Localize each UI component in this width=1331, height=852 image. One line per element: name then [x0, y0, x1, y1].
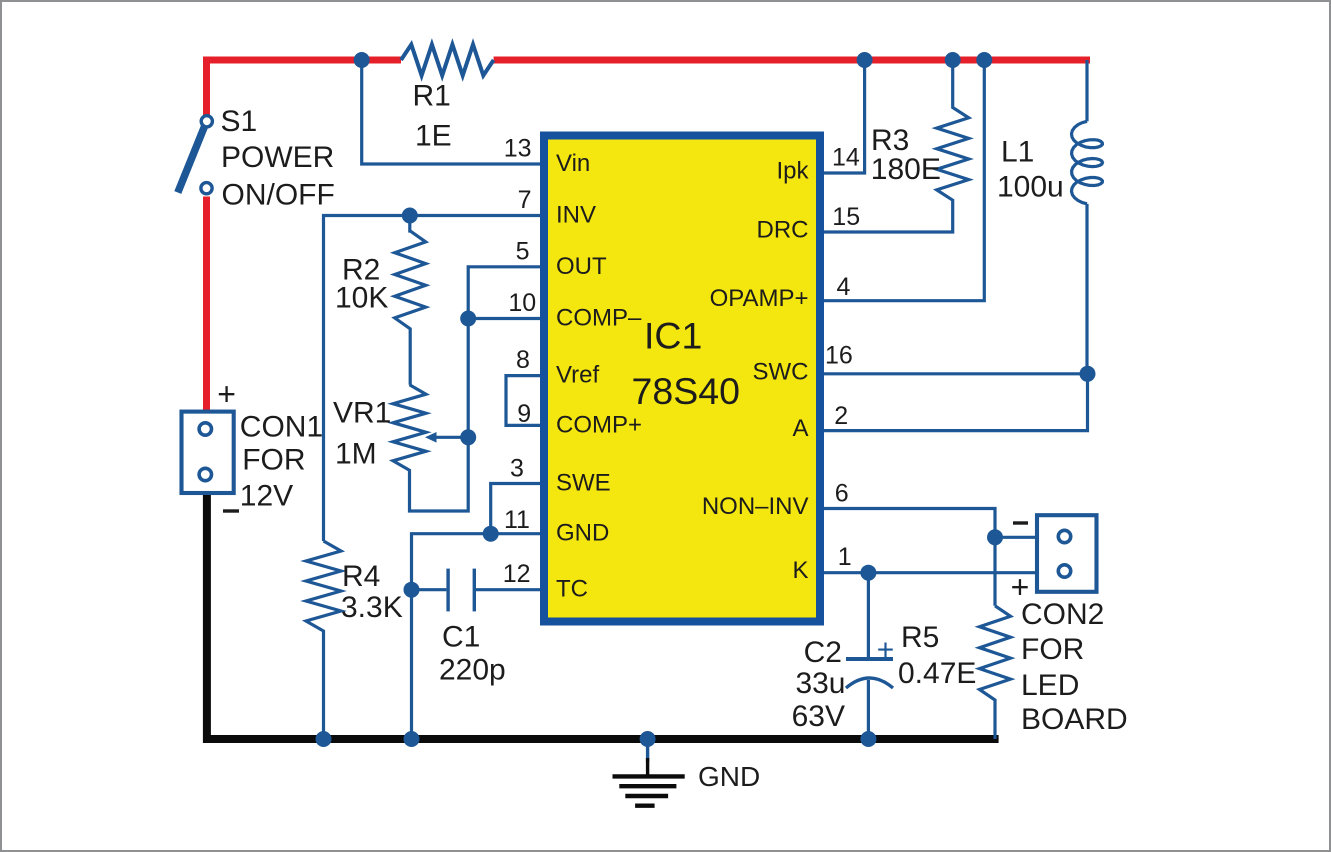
svg-text:FOR: FOR: [242, 444, 305, 477]
wire: pin4 OPAMP+: [824, 60, 984, 301]
svg-text:DRC: DRC: [757, 217, 809, 244]
svg-text:+: +: [217, 376, 236, 412]
svg-text:13: 13: [504, 135, 532, 163]
svg-text:33u: 33u: [795, 667, 845, 700]
svg-text:63V: 63V: [792, 700, 845, 733]
junction node (SWE / GND): [483, 526, 499, 542]
svg-text:OUT: OUT: [556, 253, 607, 280]
svg-text:R4: R4: [342, 560, 380, 593]
svg-text:SWC: SWC: [753, 358, 809, 385]
wire: pin14 Ipk: [824, 60, 865, 173]
svg-text:6: 6: [835, 480, 849, 508]
junction node (C2 / ground bus): [860, 731, 876, 747]
resistor R3: [824, 60, 969, 232]
svg-text:CON2: CON2: [1021, 598, 1104, 631]
wire: CON2 minus stub: [995, 536, 1037, 539]
svg-text:3: 3: [510, 455, 524, 483]
svg-text:8: 8: [516, 346, 530, 374]
svg-text:10: 10: [508, 289, 536, 317]
svg-text:180E: 180E: [871, 153, 941, 186]
wire: ground bus (black): [207, 495, 999, 739]
svg-text:4: 4: [837, 273, 851, 301]
svg-text:BOARD: BOARD: [1021, 703, 1128, 736]
svg-text:1E: 1E: [415, 120, 452, 153]
svg-text:5: 5: [516, 237, 530, 265]
svg-text:FOR: FOR: [1021, 633, 1084, 666]
svg-text:15: 15: [832, 203, 860, 231]
wire: pin1 K to CON2 +: [824, 571, 1037, 574]
wire: pin6 NON-INV net: [824, 509, 995, 606]
svg-text:+: +: [877, 634, 895, 667]
CON2 minus sign: [1013, 521, 1028, 524]
svg-text:NON–INV: NON–INV: [702, 493, 809, 520]
wire: pin16 SWC: [824, 372, 1088, 375]
svg-text:INV: INV: [556, 202, 596, 229]
junction node (red bus / R3): [945, 52, 961, 68]
svg-text:1M: 1M: [335, 438, 377, 471]
capacitor C1: [412, 588, 447, 591]
resistor R4: [306, 541, 341, 739]
svg-text:GND: GND: [698, 761, 760, 792]
junction node (ground bus / ground symbol): [640, 731, 656, 747]
svg-text:10K: 10K: [335, 281, 388, 314]
potentiometer VR1: [393, 385, 468, 511]
svg-text:IC1: IC1: [644, 315, 702, 357]
svg-text:C2: C2: [804, 636, 842, 669]
junction node (OUT / COMP-): [460, 311, 476, 327]
svg-text:LED: LED: [1021, 669, 1079, 702]
svg-text:L1: L1: [1001, 136, 1034, 169]
svg-text:POWER: POWER: [221, 141, 334, 174]
resistor R5: [980, 606, 1011, 739]
IC U1 78S40 body: [544, 136, 820, 622]
junction node (red bus / Ipk): [857, 52, 873, 68]
svg-text:Vin: Vin: [556, 150, 590, 177]
svg-text:2: 2: [834, 402, 848, 430]
svg-text:COMP+: COMP+: [556, 411, 642, 438]
svg-text:R1: R1: [413, 80, 451, 113]
junction node (K / C2): [860, 565, 876, 581]
wire: +12V red bus (R1 to L1): [494, 57, 1090, 64]
svg-text:3.3K: 3.3K: [341, 591, 403, 624]
svg-text:R3: R3: [871, 124, 909, 157]
svg-text:OPAMP+: OPAMP+: [710, 285, 809, 312]
svg-text:TC: TC: [556, 576, 588, 603]
svg-text:C1: C1: [442, 621, 480, 654]
junction node (VR1 wiper): [460, 429, 476, 445]
svg-text:ON/OFF: ON/OFF: [222, 178, 335, 211]
svg-text:S1: S1: [221, 105, 258, 138]
svg-text:1: 1: [838, 543, 852, 571]
svg-text:12: 12: [503, 560, 531, 588]
wire: pin3 SWE stub: [491, 484, 540, 534]
junction node (GND net / C1): [404, 582, 420, 598]
resistor R1: [401, 45, 494, 76]
inductor L1: [1085, 60, 1088, 121]
svg-text:9: 9: [517, 400, 531, 428]
ground: [646, 739, 649, 762]
connector CON2: [1037, 515, 1097, 592]
switch S1: [178, 127, 205, 193]
svg-text:Ipk: Ipk: [776, 158, 809, 185]
svg-text:16: 16: [825, 342, 853, 370]
junction node (NON-INV / CON2 minus): [987, 529, 1003, 545]
svg-text:12V: 12V: [240, 480, 293, 513]
junction node (GND net / ground bus): [404, 731, 420, 747]
svg-text:Vref: Vref: [556, 362, 599, 389]
svg-text:0.47E: 0.47E: [898, 657, 976, 690]
connector CON1: [182, 412, 234, 493]
junction node (L1 / SWC / A): [1080, 366, 1096, 382]
wire: pin8-pin9 Vref-COMP+ loop: [506, 376, 540, 426]
svg-text:14: 14: [832, 144, 860, 172]
svg-text:A: A: [792, 415, 808, 442]
resistor R2: [395, 216, 426, 385]
svg-text:CON1: CON1: [240, 411, 323, 444]
svg-text:SWE: SWE: [556, 470, 611, 497]
svg-text:78S40: 78S40: [632, 370, 740, 412]
svg-text:220p: 220p: [439, 654, 506, 687]
wire: pin5 OUT net: [468, 267, 540, 438]
svg-text:11: 11: [504, 506, 530, 534]
junction node (R4 / ground bus): [316, 731, 332, 747]
wire: pin13 Vin: [362, 60, 540, 164]
wire: pin2 A: [824, 374, 1088, 431]
svg-text:K: K: [792, 557, 808, 584]
junction node (red bus / OPAMP+): [976, 52, 992, 68]
svg-text:100u: 100u: [997, 170, 1064, 203]
svg-text:COMP–: COMP–: [556, 305, 642, 332]
svg-text:7: 7: [518, 186, 532, 214]
CON1 minus sign: [223, 509, 239, 512]
wire: pin11 GND net: [412, 534, 541, 739]
svg-text:GND: GND: [556, 520, 609, 547]
VR1 wiper arrow: [434, 436, 468, 439]
junction node (red bus / Vin): [354, 52, 370, 68]
svg-text:R5: R5: [901, 621, 939, 654]
wire: pin7 INV net: [324, 216, 541, 542]
junction node (INV / R2): [402, 208, 418, 224]
wire: +12V red bus (S1 top to R1): [207, 60, 402, 117]
wire: red from S1 to CON1 +: [203, 197, 210, 413]
capacitor C2: [867, 573, 870, 657]
svg-text:VR1: VR1: [333, 397, 391, 430]
wire: pin10 COMP- stub: [468, 317, 540, 320]
